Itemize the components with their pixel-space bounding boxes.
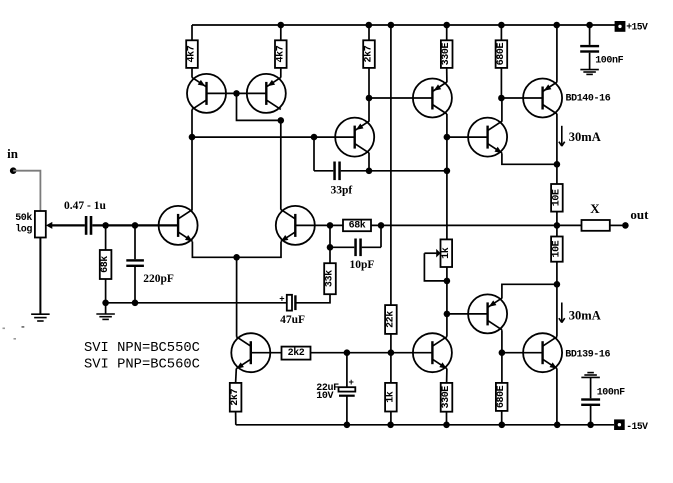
label -15V bbox=[626, 421, 648, 432]
svg-text:10V: 10V bbox=[316, 391, 333, 402]
label BD139-16 bbox=[565, 350, 610, 361]
capacitor 33pf bbox=[314, 137, 369, 180]
wire pot wiper to C1 bbox=[50, 224, 85, 226]
resistor 330E top bbox=[441, 25, 453, 82]
wire BD140 base bbox=[501, 97, 542, 99]
wire in to potentiometer bbox=[13, 171, 40, 211]
node driver2 base tap bbox=[444, 311, 451, 318]
capacitor 47uF bbox=[279, 295, 296, 311]
label 22uF 10V bbox=[316, 383, 339, 402]
wire BD140 collector down bbox=[556, 114, 558, 184]
label BD140-16 bbox=[566, 94, 611, 105]
node VAS base tap bbox=[189, 134, 196, 141]
transistor VAS bottom NPN bbox=[413, 333, 452, 372]
current arrow 30mA top bbox=[559, 126, 565, 146]
label X bbox=[590, 201, 600, 216]
resistor 10E bottom bbox=[551, 237, 563, 262]
svg-text:2k2: 2k2 bbox=[288, 347, 305, 359]
resistor 10E top bbox=[551, 184, 563, 212]
label 10pF bbox=[350, 259, 375, 271]
transistor CCS top PNP bbox=[413, 79, 452, 118]
node in terminal bbox=[10, 167, 17, 174]
wire trimmer to VAS2 bbox=[446, 267, 448, 337]
transistor Q mirror left PNP bbox=[187, 74, 226, 113]
wire VAS emitter up bbox=[368, 98, 370, 121]
node tail bbox=[233, 254, 240, 261]
node mirror bases bbox=[233, 90, 240, 97]
label 33pf bbox=[331, 184, 353, 196]
wire tail to current source bbox=[236, 257, 238, 336]
wire BD139 collector up bbox=[556, 284, 558, 336]
svg-text:220pF: 220pF bbox=[143, 273, 174, 285]
node 22uF top bbox=[344, 349, 351, 356]
wire CS base to 2k2 bbox=[251, 352, 282, 354]
wire 2k2 to VAS2 base bbox=[311, 352, 433, 354]
svg-text:10E: 10E bbox=[551, 240, 562, 257]
node feedback bbox=[327, 222, 334, 229]
resistor 68k feedback bbox=[343, 220, 371, 232]
svg-text:log: log bbox=[15, 224, 32, 236]
resistor 2k7 bottom bbox=[229, 383, 241, 412]
wire VAS2 emitter down bbox=[446, 369, 448, 383]
wire bias column x391 bbox=[390, 25, 392, 425]
transistor BD140-16 PNP bbox=[523, 79, 562, 118]
svg-text:330E: 330E bbox=[441, 43, 452, 66]
wire VAS collector down bbox=[368, 153, 370, 171]
label 30mA top bbox=[569, 130, 601, 144]
transistor LTP left NPN bbox=[159, 206, 198, 245]
svg-text:33pf: 33pf bbox=[331, 184, 353, 196]
svg-text:47uF: 47uF bbox=[280, 314, 305, 326]
svg-text:33k: 33k bbox=[324, 270, 336, 287]
wire VAS collector line to CCS bbox=[369, 170, 447, 172]
wire pot to ground bbox=[39, 238, 41, 315]
node output junction bbox=[554, 222, 561, 229]
wire C1 to LTP base bbox=[92, 224, 178, 226]
wire VAS base line bbox=[192, 136, 355, 138]
wire 10E bottom to node bbox=[556, 262, 558, 285]
wire ground line to 47uF bbox=[106, 302, 287, 304]
svg-text:680E: 680E bbox=[496, 43, 507, 66]
node bias divider mid bbox=[388, 349, 395, 356]
node out terminal bbox=[622, 222, 629, 229]
label 0.47 - 1u bbox=[64, 200, 106, 212]
svg-text:out: out bbox=[630, 207, 649, 222]
svg-text:30mA: 30mA bbox=[569, 309, 601, 323]
wire driver1 emitter bbox=[502, 153, 557, 164]
svg-text:22k: 22k bbox=[384, 311, 396, 328]
transistor BD139-16 NPN bbox=[523, 333, 562, 372]
wire BD139 base bbox=[502, 352, 543, 354]
wire VAS2 collector up bbox=[446, 336, 448, 338]
label 220pF bbox=[143, 273, 174, 285]
svg-text:68k: 68k bbox=[99, 256, 111, 273]
transistor VAS top PNP bbox=[335, 118, 374, 157]
wire 4k7b column bbox=[280, 25, 282, 78]
svg-text:100nF: 100nF bbox=[597, 387, 625, 398]
capacitor 220pF bbox=[126, 225, 144, 302]
svg-text:4k7: 4k7 bbox=[186, 45, 198, 62]
wire Q2 collector to LTP right collector bbox=[280, 120, 282, 209]
node BD140 collector driver1 emitter bbox=[554, 161, 561, 168]
label in bbox=[7, 146, 19, 161]
wire driver1 collector bbox=[501, 98, 503, 121]
node 68k bottom bbox=[102, 300, 109, 315]
terminal -15V bbox=[614, 419, 625, 430]
svg-text:2k7: 2k7 bbox=[229, 389, 241, 406]
wire feedback node down bbox=[329, 225, 331, 263]
svg-text:100nF: 100nF bbox=[595, 55, 623, 66]
svg-text:30mA: 30mA bbox=[569, 130, 601, 144]
svg-text:BD140-16: BD140-16 bbox=[566, 94, 611, 105]
transistor Q mirror right PNP bbox=[247, 74, 286, 113]
note SVI PNP=BC560C bbox=[84, 358, 200, 373]
label 47uF bbox=[280, 314, 305, 326]
node 220pF bottom bbox=[132, 300, 139, 307]
capacitor 100nF bottom bbox=[581, 378, 600, 425]
potentiometer 50k log bbox=[35, 211, 52, 238]
node 33pf tap bbox=[311, 134, 318, 141]
node VAS collector bbox=[366, 168, 373, 175]
ground 100nF top bbox=[580, 70, 599, 75]
resistor 2k7 top bbox=[363, 25, 375, 98]
capacitor 100nF top bbox=[580, 25, 599, 69]
resistor 4k7 right bbox=[274, 40, 286, 68]
svg-text:1k: 1k bbox=[440, 247, 452, 259]
svg-text:0.47 - 1u: 0.47 - 1u bbox=[64, 200, 106, 212]
ground pot bbox=[31, 314, 50, 321]
svg-text:68k: 68k bbox=[349, 220, 366, 232]
resistor 330E bottom bbox=[441, 383, 453, 425]
node CCS line end bbox=[444, 168, 451, 175]
trimmer 1k bbox=[424, 239, 452, 281]
wire CS emitter down bbox=[235, 369, 238, 383]
junction dots top rail bbox=[278, 22, 593, 29]
resistor 2k2 bbox=[282, 347, 311, 360]
label out bbox=[630, 207, 649, 222]
node 2k7 bottom bbox=[366, 95, 373, 102]
label +15V bbox=[626, 22, 648, 33]
transistor driver top NPN bbox=[468, 118, 507, 157]
label 30mA bottom bbox=[569, 309, 601, 323]
svg-text:4k7: 4k7 bbox=[274, 45, 286, 62]
capacitor 0.47-1u bbox=[85, 216, 92, 235]
svg-text:SVI PNP=BC560C: SVI PNP=BC560C bbox=[84, 358, 200, 373]
wire BD140 emitter to rail bbox=[556, 25, 558, 82]
resistor 1k bottom bbox=[384, 383, 396, 412]
node 33k top bbox=[327, 244, 334, 251]
capacitor 10pF bbox=[330, 225, 381, 256]
resistor 33k bbox=[324, 263, 336, 294]
svg-text:680E: 680E bbox=[496, 385, 507, 408]
svg-text:+: + bbox=[349, 378, 354, 388]
resistor 22k bbox=[384, 305, 396, 334]
wire LTP emitters tail bbox=[192, 242, 281, 258]
svg-text:in: in bbox=[7, 146, 19, 161]
node trimmer bottom bbox=[444, 278, 451, 285]
label 50k log bbox=[15, 212, 32, 236]
node Q2 collector bbox=[278, 117, 285, 124]
current arrow 30mA bottom bbox=[559, 303, 565, 323]
wire BD139 emitter to rail bbox=[556, 369, 558, 425]
node lower junction bbox=[554, 281, 561, 288]
transistor driver bottom PNP bbox=[468, 294, 507, 333]
svg-text:50k: 50k bbox=[15, 212, 32, 224]
svg-text:-15V: -15V bbox=[626, 421, 648, 432]
resistor 680E top bbox=[496, 25, 508, 98]
svg-text:X: X bbox=[590, 201, 600, 216]
terminal +15V bbox=[615, 21, 626, 32]
node 680E bottom BD140 base bbox=[498, 95, 505, 102]
wire CCS collector down to trimmer bbox=[446, 114, 448, 239]
svg-text:1k: 1k bbox=[384, 391, 396, 403]
wire driver2 emitter bbox=[502, 284, 557, 298]
transistor current source NPN bbox=[231, 333, 270, 372]
svg-text:10E: 10E bbox=[551, 189, 562, 206]
wire X to out bbox=[610, 224, 626, 226]
junction dots bottom rail bbox=[344, 422, 594, 429]
label 100nF top bbox=[595, 55, 623, 66]
svg-text:BD139-16: BD139-16 bbox=[565, 350, 610, 361]
node 68k right bbox=[378, 222, 385, 229]
resistor 68k input bbox=[99, 225, 111, 302]
svg-text:SVI NPN=BC550C: SVI NPN=BC550C bbox=[84, 341, 200, 356]
bottom rail -15V bbox=[236, 424, 614, 426]
wire Q1 collector to LTP left collector bbox=[191, 109, 193, 209]
node after C1 bbox=[102, 222, 109, 229]
wire mirror bases bbox=[207, 92, 267, 94]
wire mirror base tie to Q2 collector bbox=[237, 93, 281, 120]
resistor X bbox=[582, 220, 610, 231]
capacitor 22uF 10V bbox=[339, 353, 356, 425]
ground 68k bbox=[96, 314, 115, 319]
svg-text:330E: 330E bbox=[441, 386, 452, 409]
wire driver2 base bbox=[447, 313, 488, 315]
svg-text:2k7: 2k7 bbox=[363, 45, 375, 62]
label 100nF bottom bbox=[597, 387, 625, 398]
svg-text:+: + bbox=[279, 295, 284, 305]
svg-text:+15V: +15V bbox=[626, 22, 648, 33]
wire LTP right base to feedback node bbox=[295, 224, 343, 226]
node 220pF top bbox=[132, 222, 139, 229]
wire 2k7 to rail corner bbox=[235, 412, 237, 425]
wire CCS base bbox=[369, 97, 432, 99]
ground 100nF bottom inverted bbox=[581, 373, 600, 378]
node driver1 base tap bbox=[444, 134, 451, 141]
wire feedback resistor to output bbox=[371, 224, 582, 226]
wire 33k to 47uF bbox=[297, 294, 331, 303]
resistor 680E bottom bbox=[496, 383, 508, 425]
svg-text:10pF: 10pF bbox=[350, 259, 375, 271]
transistor LTP right NPN bbox=[276, 206, 315, 245]
node driver2 collector BD139 base bbox=[499, 349, 506, 356]
top rail +15V bbox=[192, 24, 616, 26]
wire driver2 collector bbox=[501, 330, 503, 383]
wire 4k7a column bbox=[191, 25, 193, 78]
note SVI NPN=BC550C bbox=[84, 341, 200, 356]
wire 10E top to node bbox=[556, 212, 558, 237]
wire driver1 base bbox=[447, 136, 488, 138]
resistor 4k7 left bbox=[186, 40, 198, 68]
